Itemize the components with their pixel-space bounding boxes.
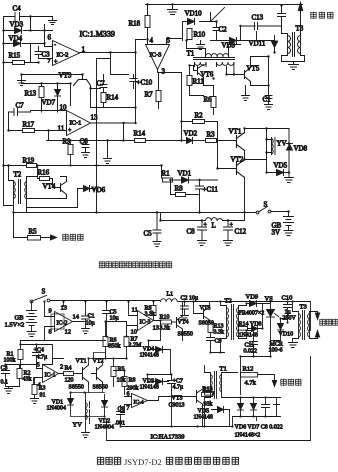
capacitor C4 [13, 5, 22, 21]
ground C5 [153, 242, 161, 247]
resistor R8 [175, 185, 186, 197]
wire R5 row + arrow [14, 213, 57, 240]
ground top-left [49, 17, 57, 25]
wire IC-4b pins [125, 397, 159, 413]
svg-text:4: 4 [150, 37, 154, 45]
transistor VT2 [231, 156, 245, 178]
resistor R19 [23, 157, 37, 168]
wire YV rails [267, 129, 290, 178]
svg-text:R19: R19 [23, 157, 35, 165]
svg-text:1N4148×2: 1N4148×2 [235, 433, 261, 439]
svg-text:+C4: +C4 [34, 348, 44, 354]
ground C6 [82, 153, 90, 158]
capacitor C2b [181, 296, 199, 316]
transformer T1 [187, 50, 235, 66]
svg-text:YV: YV [277, 140, 287, 148]
svg-text:IC-1: IC-1 [45, 373, 56, 379]
switch S2 [30, 288, 50, 303]
resistor R13b [208, 323, 224, 336]
svg-text:C8: C8 [187, 228, 196, 236]
resistor R5 [28, 228, 41, 241]
diode VD6 [78, 186, 106, 195]
wire top rail bottom-schem [32, 301, 311, 311]
svg-text:11: 11 [132, 307, 138, 314]
svg-text:0.1: 0.1 [1, 380, 9, 386]
ground C3R2 [5, 387, 13, 394]
ground GB [284, 231, 293, 236]
svg-text:VT5: VT5 [247, 65, 260, 73]
resistor R9 [63, 138, 74, 155]
resistor R11b [202, 388, 213, 397]
diode VD3 [10, 21, 24, 34]
resistor R7 [145, 91, 162, 102]
svg-text:VD4: VD4 [9, 35, 23, 43]
capacitor C6 [80, 138, 90, 153]
spark needle arrow [298, 3, 302, 15]
svg-text:4.7μ: 4.7μ [173, 385, 184, 391]
inductor L1b [161, 292, 178, 302]
solenoid YV [267, 138, 287, 155]
wire VT5b [194, 302, 210, 314]
svg-text:10μ: 10μ [86, 321, 95, 327]
svg-text:R1: R1 [162, 170, 171, 178]
ground C12 [224, 241, 233, 246]
svg-text:3.3k: 3.3k [160, 326, 171, 332]
diode VD4b [140, 347, 171, 359]
svg-text:120: 120 [65, 378, 74, 384]
wire C7R14 [91, 75, 136, 108]
svg-text:VT4: VT4 [178, 320, 189, 326]
wire VS MCR chain [241, 319, 288, 357]
svg-text:C4: C4 [13, 5, 22, 13]
resistor R2 top-right [193, 112, 205, 124]
svg-text:R12: R12 [243, 366, 254, 373]
wire VD8b [239, 304, 263, 329]
wire R5b [103, 359, 114, 387]
capacitor top-right to rail [278, 14, 286, 27]
wire vertical x30 [30, 17, 32, 63]
svg-text:C2 10μ: C2 10μ [181, 296, 199, 302]
junction dots top [2, 3, 290, 221]
diode VD8 [287, 144, 308, 153]
resistor R18 [129, 16, 151, 28]
wire R14 right row [47, 123, 187, 159]
resistor R14 right [134, 130, 146, 143]
transistor VT3b [169, 389, 203, 409]
svg-text:.001: .001 [115, 421, 126, 427]
svg-text:C3: C3 [1, 366, 8, 372]
resistor R15 [9, 52, 25, 65]
wire R6 [204, 86, 214, 115]
ground wire-y40 tap [197, 41, 205, 50]
diode VD1b [47, 393, 74, 412]
ground VT5 emitter [242, 86, 250, 101]
diode VD5b [194, 407, 230, 421]
svg-text:C1: C1 [263, 96, 272, 104]
svg-text:IC:HA17339: IC:HA17339 [151, 434, 185, 441]
svg-text:+C11: +C11 [203, 186, 219, 194]
wire x216 branch [211, 22, 229, 41]
capacitor C11 [196, 180, 219, 213]
svg-text:IC-2: IC-2 [57, 321, 68, 327]
svg-text:+C10: +C10 [137, 79, 153, 87]
wire VD4b [149, 321, 171, 375]
wire IC-2 output [80, 53, 136, 75]
resistor R13 [25, 87, 45, 98]
diode VD10b [278, 319, 294, 338]
svg-text:1.5V×2: 1.5V×2 [5, 322, 25, 329]
wire C11b [247, 331, 254, 357]
capacitor C3b [1, 365, 10, 386]
capacitor C7 mid [97, 79, 108, 93]
capacitor C12 [224, 221, 247, 241]
ground right rail [285, 178, 294, 183]
svg-text:C6: C6 [80, 138, 89, 146]
wire IC-2b pins [45, 302, 86, 341]
transistor VT5b [199, 306, 214, 327]
capacitor C10b [282, 295, 297, 323]
svg-text:C5: C5 [144, 230, 153, 238]
wire mid rail y74 [22, 75, 83, 81]
svg-text:5: 5 [37, 362, 40, 369]
svg-text:R15: R15 [9, 52, 21, 60]
svg-text:0.022: 0.022 [244, 349, 258, 355]
ground T3b [289, 343, 298, 348]
wire C13 left [240, 26, 242, 41]
capacitor C5 [144, 213, 162, 242]
svg-text:VD8: VD8 [294, 145, 308, 153]
svg-text:VT2: VT2 [231, 156, 244, 164]
svg-text:10μ: 10μ [110, 316, 119, 322]
resistor R7b [124, 337, 142, 349]
wire bottom rail top-schem [4, 206, 245, 213]
svg-text:11: 11 [58, 125, 65, 133]
svg-text:S8050: S8050 [199, 321, 214, 327]
svg-text:VD6: VD6 [92, 186, 106, 194]
wire R3 to VT1 [182, 122, 229, 141]
wire VT6 area [190, 66, 204, 96]
svg-text:VD2: VD2 [184, 130, 198, 138]
svg-text:13: 13 [153, 325, 160, 332]
wire YV frame [71, 393, 105, 417]
svg-text:R2: R2 [195, 112, 204, 120]
svg-text:VD3: VD3 [10, 21, 24, 29]
svg-text:R14: R14 [107, 94, 119, 102]
svg-text:1N4148: 1N4148 [140, 353, 159, 359]
wire C3 R2 [6, 365, 20, 387]
wire R19 row [4, 166, 162, 179]
svg-text:R8: R8 [175, 185, 184, 193]
wire C5b down [107, 322, 127, 337]
label xin hao zhen bottom [281, 379, 301, 385]
transformer T3 [282, 15, 305, 62]
ground GB2 [27, 332, 36, 337]
resistor R10b [160, 315, 172, 332]
wire vertical x44 [45, 25, 53, 47]
svg-text:L: L [212, 222, 216, 230]
resistor R11 [187, 76, 204, 86]
resistor R14b [239, 322, 262, 331]
resistor R3b [32, 385, 46, 399]
thyristor VS [265, 296, 279, 326]
wire T1 ends [187, 41, 241, 75]
wire IC-1 out [91, 53, 136, 124]
svg-text:S: S [264, 201, 268, 209]
diode VD9 [222, 38, 237, 50]
svg-text:T1: T1 [187, 50, 195, 58]
capacitor C7b [168, 375, 184, 391]
ground C2b [181, 316, 189, 321]
transistor VT4b [172, 316, 193, 338]
signal needle arrow bottom [272, 378, 276, 387]
capacitor C1b [82, 302, 95, 329]
transistor VT1b [69, 359, 89, 391]
wire diode row rails [233, 398, 281, 421]
wire R13b chain [210, 323, 225, 353]
svg-text:1N4148: 1N4148 [194, 415, 213, 421]
svg-text:T1: T1 [220, 366, 227, 373]
wire R9b [153, 302, 155, 321]
svg-text:2.2M: 2.2M [129, 343, 143, 349]
svg-text:2: 2 [60, 364, 63, 371]
wire R2 row [182, 122, 235, 169]
caption top schematic [99, 262, 171, 268]
svg-text:JSYD7-D2: JSYD7-D2 [124, 457, 162, 467]
diode VD6b [238, 398, 244, 417]
capacitor C1 [263, 89, 273, 105]
resistor R4b [64, 366, 74, 384]
op-amp IC-1 [58, 104, 99, 136]
wire VT1-VT2 chain [245, 129, 290, 213]
junction dots bottom [4, 300, 293, 427]
svg-text:R6: R6 [204, 96, 213, 104]
resistor R15b [203, 387, 214, 408]
wire VD6 frame [27, 59, 111, 213]
svg-text:6: 6 [48, 34, 52, 42]
svg-text:1N4004: 1N4004 [47, 406, 66, 412]
svg-text:3: 3 [162, 68, 166, 76]
wire bottom rail bottom-schem [107, 302, 311, 441]
ground C8 [198, 241, 207, 246]
wire IC-3b pins [127, 302, 161, 337]
svg-text:3.3k: 3.3k [214, 330, 225, 336]
capacitor C8b [262, 398, 270, 417]
ground C1b [82, 329, 90, 334]
svg-text:1N4004: 1N4004 [95, 425, 114, 431]
svg-text:VD6 VD7 C8 0.022: VD6 VD7 C8 0.022 [235, 425, 283, 431]
capacitor C9 [207, 333, 222, 347]
svg-text:T3: T3 [296, 25, 304, 33]
svg-text:C13: C13 [252, 14, 264, 22]
wire VD3 row [4, 30, 45, 32]
capacitor C6b [115, 406, 126, 427]
wire R1 C4 top [21, 341, 53, 369]
ground R3b [31, 395, 39, 404]
svg-text:T2: T2 [14, 171, 22, 179]
wire R6 R7 rails [106, 322, 127, 359]
svg-text:R3: R3 [39, 386, 46, 392]
capacitor C4b [33, 345, 48, 363]
svg-text:7: 7 [127, 406, 130, 412]
svg-text:1N4148: 1N4148 [239, 333, 258, 339]
wire left col bottom rail [21, 326, 138, 365]
svg-text:4.7μ: 4.7μ [37, 355, 48, 361]
diode VD10 [185, 10, 203, 25]
svg-text:L1: L1 [167, 292, 174, 298]
svg-text:IC:1.M339: IC:1.M339 [80, 30, 115, 39]
label dian huo zhen bottom [320, 319, 338, 325]
ground YVb [82, 425, 90, 438]
switch S [245, 201, 289, 214]
op-amp IC-1b [37, 362, 64, 389]
inductor L [206, 218, 223, 230]
svg-text:C2: C2 [219, 26, 228, 34]
svg-text:R5: R5 [29, 228, 38, 236]
wire T1b ends [205, 366, 238, 404]
svg-text:1N4148: 1N4148 [140, 385, 159, 391]
svg-text:9: 9 [49, 308, 52, 315]
svg-text:S8550: S8550 [69, 385, 84, 391]
svg-text:-: - [54, 43, 56, 49]
svg-text:R5: R5 [118, 367, 125, 373]
resistor R6 [204, 96, 217, 108]
wire IC-3 pin5 [136, 39, 183, 53]
svg-text:R14 VD8: R14 VD8 [239, 322, 262, 328]
ground mid-left [18, 81, 26, 86]
svg-text:R3: R3 [207, 131, 216, 139]
capacitor C13 [241, 14, 282, 30]
svg-text:R13: R13 [25, 90, 37, 98]
capacitor C12b stub [274, 398, 280, 417]
wire IC-1b pins [21, 365, 64, 385]
wire R12 to arrow [258, 375, 275, 378]
svg-text:R10: R10 [194, 31, 206, 39]
svg-text:VD1: VD1 [178, 170, 192, 178]
resistor R1b [4, 350, 24, 364]
svg-text:14: 14 [73, 314, 80, 321]
resistor R12 [241, 366, 258, 387]
transistor VT6 [194, 65, 214, 86]
spark gap arrows [315, 312, 319, 339]
svg-text:VD5: VD5 [274, 162, 288, 170]
wire R18 to IC-3 [147, 28, 149, 45]
svg-text:C7: C7 [16, 102, 25, 110]
diode VD7b [251, 398, 257, 417]
svg-text:VD9: VD9 [246, 294, 259, 301]
label MCR 100-6 [269, 342, 283, 354]
wire misc bottom [121, 397, 233, 427]
wire R8 C11 [171, 194, 200, 196]
svg-text:10: 10 [131, 329, 138, 336]
svg-text:5: 5 [167, 37, 171, 45]
diode VD9b [246, 294, 270, 307]
resistor R6b [103, 337, 121, 350]
op-amp IC-2b [49, 305, 80, 336]
resistor R1 [162, 170, 173, 183]
capacitor C5b [103, 302, 119, 322]
svg-text:IC-2: IC-2 [57, 52, 69, 59]
svg-text:R14: R14 [134, 130, 146, 138]
capacitor C11b [244, 337, 258, 355]
wire VT5 collector [227, 57, 269, 89]
svg-text:IC-4: IC-4 [134, 400, 144, 406]
wire C7-left to IC-1 [9, 111, 67, 131]
svg-text:T3: T3 [300, 304, 307, 311]
svg-text:C10: C10 [282, 295, 293, 302]
ground C1 [265, 105, 273, 110]
svg-text:7: 7 [48, 59, 51, 65]
svg-text:43k: 43k [23, 377, 32, 383]
wire T2b ends [221, 302, 247, 353]
transistor VT1 [229, 128, 245, 151]
svg-text:IC-1: IC-1 [70, 120, 82, 127]
svg-text:T2: T2 [225, 298, 232, 305]
wire T3 top [282, 6, 288, 34]
svg-text:100k: 100k [4, 358, 16, 364]
svg-text:VD7: VD7 [42, 99, 56, 107]
svg-text:C3: C3 [42, 51, 51, 59]
svg-text:VT1: VT1 [229, 128, 242, 136]
svg-text:C9013: C9013 [169, 403, 185, 409]
svg-text:12: 12 [65, 329, 72, 336]
capacitor C10 [130, 75, 153, 89]
capacitor C3 [35, 47, 53, 59]
op-amp IC-3b [131, 307, 160, 336]
ground top-mid [168, 5, 178, 15]
transistor VT3 [59, 72, 91, 89]
svg-text:S: S [42, 288, 46, 296]
svg-text:8: 8 [49, 329, 52, 336]
svg-text:FR4007×2: FR4007×2 [239, 311, 265, 317]
svg-text:R7: R7 [145, 91, 154, 99]
transistor VT2b [92, 359, 108, 391]
wire top-left rail [4, 17, 53, 206]
diode VD1 [173, 170, 218, 184]
svg-text:R8: R8 [129, 378, 136, 384]
ground mid stub [104, 159, 112, 164]
wire VD3 C7 [148, 375, 172, 397]
transistor VT4 top [38, 166, 67, 199]
diode VD5 [267, 162, 290, 176]
wire R15 row [4, 62, 39, 64]
transformer T2b [225, 298, 239, 340]
caption bottom schematic [97, 457, 238, 467]
svg-text:YV: YV [73, 422, 83, 429]
svg-text:C7: C7 [97, 80, 106, 88]
transformer T2 [14, 171, 27, 204]
wire diagonal to spark [211, 8, 225, 22]
svg-text:10: 10 [60, 104, 68, 112]
svg-text:R11: R11 [193, 78, 205, 86]
svg-text:VD11: VD11 [249, 40, 266, 48]
capacitor C7 left [9, 102, 31, 116]
label xin hao zhen top [63, 234, 83, 240]
svg-text:VD10: VD10 [185, 10, 203, 18]
svg-text:850k: 850k [109, 344, 121, 350]
wire R7 [158, 73, 160, 109]
op-amp IC-3 [146, 37, 171, 76]
transformer T3b [299, 304, 310, 340]
svg-text:IC-3: IC-3 [140, 320, 151, 326]
svg-text:IC-3: IC-3 [150, 52, 162, 59]
svg-text:VT1: VT1 [76, 359, 87, 365]
svg-text:R18: R18 [129, 20, 141, 28]
battery GB 3V [272, 212, 294, 237]
wire R17 row [9, 131, 67, 141]
label dian huo zhen top [311, 12, 333, 18]
resistor R17 [23, 121, 35, 133]
diode VD3b [140, 379, 169, 391]
